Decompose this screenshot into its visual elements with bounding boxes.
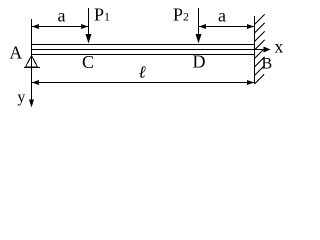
wall hatching stroke 7 bbox=[255, 66, 265, 76]
svg-text:y: y bbox=[18, 89, 26, 106]
dim a right: right arrowhead bbox=[247, 24, 254, 29]
svg-text:B: B bbox=[262, 56, 273, 73]
x-axis line bbox=[255, 49, 265, 51]
dim a left: left arrowhead bbox=[32, 24, 39, 29]
beam top edge bbox=[31, 44, 254, 46]
svg-text:ℓ: ℓ bbox=[139, 63, 146, 82]
wall hatching stroke 2 bbox=[255, 23, 265, 33]
svg-text:x: x bbox=[275, 37, 284, 57]
force P2 line bbox=[198, 8, 200, 36]
y-axis arrowhead bbox=[29, 100, 34, 108]
beam axis mid line bbox=[31, 49, 254, 51]
wall hatching stroke 6 bbox=[255, 57, 265, 67]
wall line at B bbox=[254, 16, 256, 84]
dim a right: left arrowhead bbox=[199, 24, 206, 29]
wall hatching stroke 3 bbox=[255, 32, 265, 42]
wall hatching stroke 4 bbox=[255, 40, 265, 50]
wall hatching stroke 5 bbox=[255, 49, 265, 59]
svg-text:D: D bbox=[193, 52, 206, 72]
dimension line a right bbox=[199, 26, 255, 28]
dim ell: left arrowhead bbox=[32, 80, 39, 85]
svg-text:C: C bbox=[82, 52, 94, 72]
svg-text:a: a bbox=[218, 6, 226, 26]
dim a left: right arrowhead bbox=[81, 24, 88, 29]
dimension line ell bbox=[32, 82, 255, 84]
support base line bbox=[24, 67, 40, 69]
wall hatching stroke 8 bbox=[255, 75, 265, 85]
dim ell: right arrowhead bbox=[247, 80, 254, 85]
wall hatching stroke 1 bbox=[255, 15, 265, 25]
left vertical line: dimension tick at A / beam end / y-axis bbox=[31, 19, 33, 101]
x-axis arrowhead bbox=[264, 47, 271, 53]
dimension line a left bbox=[32, 26, 89, 28]
beam bottom edge bbox=[31, 54, 254, 56]
svg-text:a: a bbox=[58, 6, 66, 26]
P2 arrowhead bbox=[196, 34, 202, 44]
force P1 line bbox=[88, 8, 90, 36]
P1 arrowhead bbox=[86, 34, 92, 44]
support triangle at A bbox=[26, 56, 38, 68]
svg-text:A: A bbox=[10, 43, 23, 63]
